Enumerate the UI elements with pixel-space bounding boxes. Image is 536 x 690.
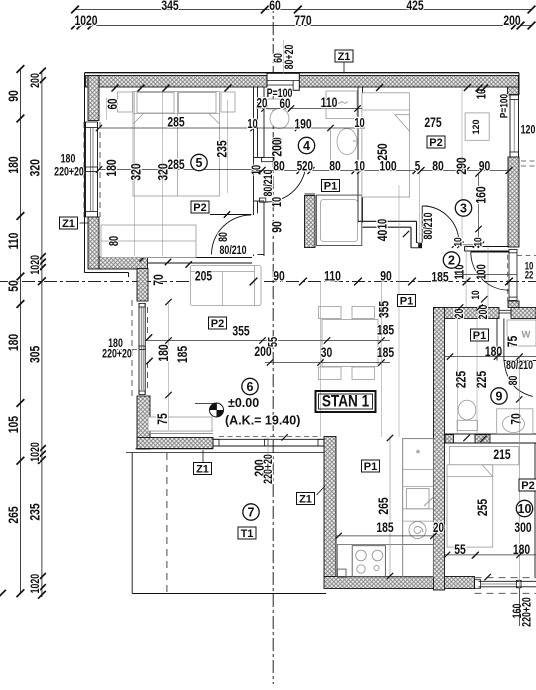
- bench at window: [148, 417, 212, 431]
- svg-text:40: 40: [375, 230, 391, 242]
- svg-text:180: 180: [61, 152, 76, 166]
- Z1 bottom-mid: [297, 493, 315, 505]
- svg-text:180: 180: [6, 334, 22, 351]
- svg-text:Z1: Z1: [338, 51, 351, 63]
- svg-text:345: 345: [161, 0, 178, 13]
- svg-text:185: 185: [377, 322, 394, 338]
- svg-text:320: 320: [155, 163, 171, 180]
- bedroom5 bottom wall: [99, 257, 148, 269]
- svg-text:P2: P2: [193, 202, 206, 214]
- svg-text:P1: P1: [324, 181, 337, 193]
- svg-text:10: 10: [470, 290, 483, 300]
- svg-text:265: 265: [6, 506, 22, 523]
- svg-text:105: 105: [6, 416, 22, 433]
- svg-text:10: 10: [271, 197, 285, 207]
- Z1 left: [60, 217, 78, 229]
- svg-text:305: 305: [27, 346, 43, 363]
- terrace glazing room6: [148, 430, 214, 432]
- top dimension chain line A: [75, 9, 532, 11]
- kitchen/bottom south wall: [324, 577, 475, 589]
- wc bath4: [267, 99, 290, 109]
- svg-text:185: 185: [376, 520, 393, 536]
- svg-text:80: 80: [273, 158, 285, 174]
- svg-text:320: 320: [128, 163, 144, 180]
- right wall block below door: [508, 301, 519, 308]
- kitchen counter south: [337, 545, 433, 578]
- svg-text:P2: P2: [211, 318, 224, 330]
- room number circles: [443, 252, 459, 268]
- dining table: [322, 320, 378, 367]
- svg-text:90: 90: [269, 221, 285, 233]
- svg-text:20: 20: [302, 158, 313, 174]
- bath4 dims: [256, 108, 362, 110]
- door mark room10: [481, 466, 491, 476]
- kitchen counter east: [403, 439, 434, 577]
- svg-text:200: 200: [269, 139, 285, 156]
- STAN 1: [316, 391, 376, 412]
- svg-text:185: 185: [175, 346, 191, 363]
- door bath9 80/210: [504, 360, 536, 362]
- svg-text:355: 355: [232, 323, 249, 339]
- kitchen west wall: [324, 437, 336, 577]
- drain spiral: [409, 522, 426, 539]
- svg-text:70: 70: [151, 274, 167, 286]
- svg-text:120: 120: [471, 119, 481, 134]
- svg-text:250: 250: [375, 143, 391, 160]
- svg-text:T1: T1: [241, 528, 254, 540]
- svg-text:70: 70: [508, 413, 524, 425]
- svg-text:1020: 1020: [74, 13, 97, 29]
- svg-text:P2: P2: [521, 480, 534, 492]
- washing machine bath4: [326, 91, 357, 119]
- svg-text:3: 3: [460, 201, 467, 215]
- bedroom5 south glazing: [148, 257, 253, 259]
- horizontal axis line: [0, 281, 536, 283]
- wardrobe room5: [101, 225, 196, 258]
- top-right corner wall block: [508, 87, 519, 95]
- svg-text:180: 180: [485, 344, 502, 360]
- svg-text:P1: P1: [364, 461, 377, 473]
- kitchen dims: [362, 460, 380, 472]
- svg-text:9: 9: [496, 389, 503, 403]
- svg-text:80: 80: [507, 376, 521, 386]
- bath9 partition east: [496, 319, 498, 361]
- svg-text:320: 320: [27, 159, 43, 176]
- svg-text:160: 160: [473, 186, 489, 203]
- svg-text:180: 180: [6, 156, 22, 173]
- bottom window 180/220+20: [479, 580, 536, 582]
- door bedroom5 80/210: [210, 214, 252, 216]
- svg-text:255: 255: [475, 499, 491, 516]
- wardrobe room3: [465, 113, 489, 140]
- terrace outline: [131, 453, 133, 594]
- nightstands: [118, 92, 133, 112]
- level marker: [195, 403, 224, 417]
- svg-text:80+20: 80+20: [283, 45, 297, 70]
- svg-text:10: 10: [376, 219, 390, 229]
- shower tray: [316, 195, 361, 245]
- svg-text:100: 100: [475, 264, 489, 280]
- bed room10: [447, 465, 493, 547]
- svg-text:75: 75: [505, 336, 521, 348]
- svg-text:80: 80: [432, 158, 444, 174]
- svg-text:30: 30: [321, 345, 333, 361]
- lower apt top wall: [434, 308, 500, 319]
- door room3 80/210: [421, 206, 423, 243]
- vertical axis line: [272, 0, 274, 684]
- chairs: [319, 307, 342, 319]
- bed room3: [362, 93, 410, 197]
- sink: [406, 489, 429, 509]
- right wall entrance door frame: [509, 249, 517, 252]
- upper terrace edge line: [126, 452, 324, 454]
- svg-text:10: 10: [354, 117, 364, 131]
- svg-text:90: 90: [380, 268, 392, 284]
- svg-text:110: 110: [321, 95, 338, 111]
- svg-text:W: W: [522, 330, 531, 341]
- top dimension chain line B: [75, 25, 532, 27]
- top exterior wall: [85, 72, 520, 74]
- svg-text:80/210: 80/210: [220, 244, 247, 258]
- small square: [337, 569, 346, 577]
- bed room5: [133, 92, 220, 197]
- hall/room2 wall: [465, 246, 510, 248]
- right wall window P=100: [509, 95, 511, 158]
- svg-text:*: *: [416, 448, 421, 460]
- svg-text:215: 215: [493, 447, 510, 463]
- lower apt west wall: [434, 308, 445, 591]
- svg-text:265: 265: [376, 497, 392, 514]
- stove: [352, 546, 385, 577]
- bath9 south wall: [445, 433, 536, 435]
- svg-text:6: 6: [247, 380, 254, 394]
- svg-text:20: 20: [433, 519, 444, 535]
- svg-text:22: 22: [525, 269, 534, 280]
- svg-text:Z1: Z1: [196, 464, 209, 476]
- svg-text:190: 190: [294, 116, 311, 132]
- svg-text:110: 110: [6, 233, 22, 250]
- washbasin bath4: [330, 129, 332, 160]
- svg-text:(A.K.= 19.40): (A.K.= 19.40): [225, 414, 300, 428]
- Z1 top: [335, 50, 353, 62]
- entrance door room2: [471, 251, 509, 253]
- washing machine hall9: [507, 320, 536, 346]
- svg-text:80: 80: [217, 232, 231, 242]
- sofa: [191, 266, 262, 306]
- svg-text:220+20: 220+20: [54, 165, 84, 179]
- svg-text:770: 770: [294, 13, 311, 29]
- svg-text:75: 75: [155, 413, 171, 425]
- left dimension chain line 2: [41, 72, 43, 598]
- svg-text:5: 5: [415, 158, 421, 174]
- svg-text:90: 90: [273, 268, 285, 284]
- svg-text:Z1: Z1: [299, 494, 312, 506]
- left exterior wall upper: [84, 73, 86, 273]
- svg-text:1020: 1020: [29, 442, 43, 462]
- svg-text:120: 120: [521, 123, 536, 137]
- svg-text:185: 185: [431, 269, 448, 285]
- svg-text:P1: P1: [400, 296, 413, 308]
- svg-text:10: 10: [452, 237, 465, 247]
- ventilation duct P=100: [267, 73, 299, 90]
- svg-text:P1: P1: [473, 330, 486, 342]
- svg-text:80: 80: [329, 158, 341, 174]
- svg-text:285: 285: [167, 114, 184, 130]
- partition bed5/bath east: [253, 87, 255, 215]
- living west wall lower corner: [137, 396, 150, 449]
- svg-text:290: 290: [454, 157, 470, 174]
- svg-text:Z1: Z1: [62, 218, 75, 230]
- lower apt entry threshold: [499, 309, 511, 311]
- svg-text:2: 2: [448, 253, 455, 267]
- living west wall upper: [137, 269, 148, 302]
- room6 south wall with terrace: [137, 438, 213, 449]
- svg-text:10: 10: [354, 158, 365, 174]
- shower wall hatched: [305, 196, 316, 248]
- svg-text:55: 55: [267, 337, 281, 347]
- right wall hatched mid: [508, 157, 519, 247]
- svg-text:20: 20: [257, 95, 268, 111]
- svg-text:235: 235: [27, 503, 43, 520]
- left dimension chain line 1: [19, 69, 21, 593]
- svg-text:5: 5: [196, 156, 203, 170]
- partition bath/room3: [357, 87, 359, 223]
- svg-text:225: 225: [453, 371, 469, 388]
- svg-text:300: 300: [514, 520, 531, 536]
- svg-text:220+20: 220+20: [262, 454, 276, 484]
- Z1 bottom-left: [194, 463, 212, 475]
- svg-text:P=100: P=100: [498, 93, 511, 118]
- chain on axis y281: [250, 278, 258, 286]
- svg-text:10: 10: [247, 118, 257, 132]
- wc bath9: [457, 420, 477, 430]
- svg-text:±0.00: ±0.00: [228, 396, 259, 410]
- main chain y170: [256, 170, 509, 172]
- svg-text:10: 10: [518, 502, 532, 516]
- svg-text:205: 205: [195, 268, 212, 284]
- svg-text:180: 180: [104, 159, 120, 176]
- dashes beyond bottom window: [475, 577, 536, 579]
- svg-text:80/210: 80/210: [422, 212, 436, 239]
- right edge wall line lower: [534, 443, 536, 577]
- svg-text:STAN 1: STAN 1: [322, 392, 370, 411]
- svg-text:180: 180: [156, 344, 172, 361]
- P/T/Z boxes: [191, 201, 209, 213]
- terrace window band x213-323: [213, 438, 324, 440]
- bed5 dims: [112, 85, 119, 92]
- left exterior wall lower: [88, 217, 99, 269]
- svg-text:60: 60: [269, 0, 281, 13]
- svg-text:355: 355: [376, 301, 392, 318]
- svg-text:10: 10: [472, 237, 485, 247]
- svg-text:200: 200: [29, 73, 43, 88]
- svg-text:50: 50: [6, 280, 22, 292]
- svg-text:185: 185: [377, 345, 394, 361]
- svg-text:1020: 1020: [29, 574, 43, 594]
- svg-text:60: 60: [280, 95, 291, 111]
- svg-text:220+20: 220+20: [102, 347, 132, 361]
- svg-text:425: 425: [406, 0, 423, 13]
- living west window 220+20: [138, 303, 140, 395]
- svg-text:1020: 1020: [29, 255, 43, 275]
- svg-text:20: 20: [453, 309, 467, 319]
- svg-text:P2: P2: [429, 137, 442, 149]
- bottom left tick: [0, 590, 6, 598]
- room2 door dims: [455, 244, 481, 246]
- P1 box hall: [398, 295, 416, 307]
- svg-text:90: 90: [6, 90, 22, 102]
- washbasin bath9: [497, 409, 533, 434]
- desk room10: [450, 447, 519, 465]
- hall partition Z-wall: [358, 220, 417, 222]
- svg-text:225: 225: [474, 371, 490, 388]
- P1 box bath: [322, 180, 340, 192]
- svg-text:220+20: 220+20: [520, 597, 534, 627]
- door bath4 80/210: [262, 158, 275, 162]
- svg-text:200: 200: [503, 13, 520, 29]
- svg-text:275: 275: [424, 115, 441, 131]
- svg-text:80: 80: [108, 236, 122, 246]
- svg-text:7: 7: [248, 505, 255, 519]
- svg-text:200: 200: [477, 305, 491, 320]
- balcony dashes right: [521, 160, 536, 162]
- svg-text:110: 110: [324, 268, 341, 284]
- left wall window 220+20: [85, 122, 87, 217]
- svg-text:4: 4: [303, 139, 310, 153]
